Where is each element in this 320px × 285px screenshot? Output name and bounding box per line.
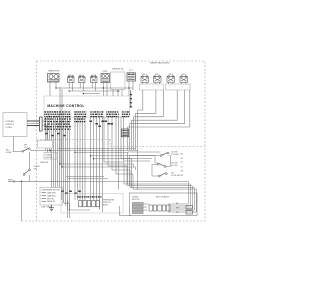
junction dots: [55, 87, 129, 167]
svg-text:P.SW: P.SW: [64, 203, 69, 205]
svg-text:CAM SW 1: CAM SW 1: [47, 192, 56, 195]
harness from valves to control: [128, 90, 190, 150]
line and neutral wires: [42, 117, 47, 140]
lid switch chain: [130, 152, 180, 177]
svg-text:SENSOR: SENSOR: [47, 201, 56, 203]
svg-text:DISP: DISP: [103, 71, 108, 73]
svg-text:MOTOR ASSY: MOTOR ASSY: [156, 196, 170, 199]
wire field from machine control: [46, 117, 124, 218]
lower routing band to motor: [70, 162, 196, 212]
timer motor M1: [48, 70, 60, 82]
rinse valve V6: [154, 74, 162, 82]
door switch: [23, 152, 30, 181]
cabinet ground wire: [21, 181, 23, 221]
spray valve V5: [141, 74, 149, 82]
svg-text:TCO: TCO: [24, 147, 29, 149]
drive motor box: [130, 193, 198, 216]
display board (empty box): [111, 67, 126, 89]
svg-text:CORD: CORD: [6, 127, 13, 129]
pressure switch cluster: [61, 194, 131, 216]
dispenser valve L4: [101, 71, 110, 82]
machine control board: [44, 96, 130, 117]
interference filter Z1: [127, 70, 136, 81]
svg-text:LINE SW: LINE SW: [40, 162, 48, 164]
svg-text:SW: SW: [34, 169, 37, 171]
bleach valve L3: [91, 75, 98, 82]
door switch label: [34, 166, 41, 171]
svg-text:YL: YL: [181, 166, 183, 168]
noise filter box: [44, 153, 57, 160]
harness continuation wires: [128, 150, 138, 190]
svg-text:WV-H: WV-H: [68, 75, 74, 77]
svg-text:DISPLAY BD: DISPLAY BD: [112, 67, 124, 70]
valve connector brackets: [140, 82, 191, 90]
in-line connector J3: [122, 129, 129, 137]
svg-text:MOTOR: MOTOR: [132, 199, 140, 201]
connector pin labels: [44, 111, 130, 117]
svg-text:WV-B: WV-B: [91, 75, 97, 77]
cluster wires bottom: [68, 200, 91, 210]
wire color code table: [44, 118, 85, 129]
thermal cutoff switch: [13, 137, 52, 153]
svg-text:WATER VALVE ASSY: WATER VALVE ASSY: [150, 62, 170, 65]
svg-text:TIMER MTR: TIMER MTR: [48, 70, 60, 72]
power cord cable: [27, 121, 40, 126]
console divider dashed line: [37, 140, 206, 147]
svg-text:(CLOSE): (CLOSE): [171, 154, 179, 156]
dispenser ground symbol: [49, 205, 54, 211]
cabinet dashed border: [22, 61, 206, 221]
svg-text:CAM SW 2: CAM SW 2: [47, 194, 56, 197]
wires from top components: [50, 81, 133, 96]
svg-text:WV-C: WV-C: [79, 75, 85, 77]
dispenser assembly: [40, 188, 63, 209]
wire bus under components: [56, 88, 133, 94]
svg-text:FUSE: FUSE: [6, 152, 12, 154]
svg-text:MOTOR: MOTOR: [47, 198, 55, 200]
hot water valve L1: [68, 75, 75, 82]
junction label box: [38, 141, 53, 149]
svg-text:DISPENSER MOTOR: DISPENSER MOTOR: [42, 190, 61, 192]
svg-text:FILTER: FILTER: [46, 157, 53, 159]
steam valve V8: [180, 74, 188, 82]
svg-text:POWER: POWER: [6, 121, 15, 123]
svg-text:(LOCK): (LOCK): [171, 165, 178, 167]
upper routing band: [50, 87, 160, 179]
svg-text:MACHINE CONTROL: MACHINE CONTROL: [47, 104, 84, 108]
lid switch labels right: [181, 154, 184, 178]
fuse label: [6, 150, 12, 155]
wash valve V7: [167, 74, 175, 82]
svg-text:LOCK SW: LOCK SW: [171, 175, 180, 177]
power cord plug box: [3, 113, 27, 137]
cold water valve L2: [79, 75, 86, 82]
strain relief connector: [40, 117, 43, 131]
svg-text:ASSY: ASSY: [103, 204, 109, 207]
svg-text:SUPPLY: SUPPLY: [6, 124, 15, 126]
wire tag labels: [45, 121, 113, 195]
ground bus wire: [8, 180, 70, 183]
